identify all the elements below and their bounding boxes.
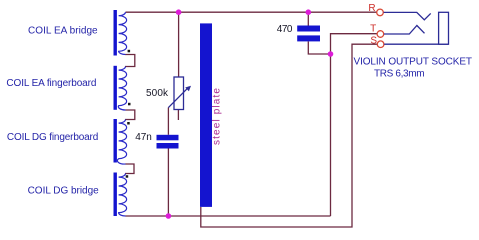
- wire top bus (coil1 top to R terminal): [126, 11, 377, 13]
- svg-text:COIL DG bridge: COIL DG bridge: [28, 186, 100, 197]
- wire node B to capacitor C1 top: [307, 12, 309, 25]
- coil L2 polarity dot: [128, 103, 131, 106]
- coil L4 polarity dot: [126, 175, 129, 178]
- jack sleeve body: [439, 12, 449, 44]
- wire zigzag coil2 bottom to coil3 top: [125, 110, 135, 120]
- svg-text:VIOLIN OUTPUT SOCKET: VIOLIN OUTPUT SOCKET: [354, 56, 473, 67]
- coil L2 core bar: [114, 66, 117, 110]
- node D junction: [166, 213, 172, 219]
- node C junction: [328, 51, 334, 57]
- wire right riser bus1 up to node C: [330, 54, 332, 216]
- wire zigzag coil3 bottom to coil4 top: [125, 164, 134, 174]
- node B junction: [306, 9, 312, 15]
- coil L4 (COIL DG bridge) winding: [119, 174, 127, 217]
- coil L3 polarity dot: [127, 122, 130, 125]
- svg-text:S: S: [370, 35, 377, 46]
- capacitor C1 470 plates: [297, 26, 320, 32]
- potentiometer R1 body: [174, 77, 184, 110]
- coil L1 core bar: [114, 10, 117, 56]
- coil L3 core bar: [114, 119, 117, 163]
- svg-text:COIL EA fingerboard: COIL EA fingerboard: [6, 78, 96, 89]
- wire capacitor C1 bottom to node C: [308, 42, 330, 55]
- jack terminal S circle: [377, 41, 384, 48]
- jack ring contact: [384, 12, 431, 19]
- svg-text:steel plate: steel plate: [211, 88, 222, 145]
- wire S terminal down-around to steel plate: [201, 44, 378, 227]
- wire pot wiper to capacitor C2 top: [167, 108, 169, 135]
- wire node A to potentiometer top: [178, 12, 180, 77]
- svg-text:TRS 6,3mm: TRS 6,3mm: [374, 68, 425, 79]
- coil L1 polarity dot: [128, 50, 131, 53]
- svg-text:T: T: [370, 24, 376, 35]
- wire bottom bus 1 (coil4 bottom to right riser): [126, 215, 331, 217]
- coil L3 (COIL DG fingerboard) winding: [117, 120, 126, 165]
- coil L4 core bar: [114, 173, 117, 217]
- coil L2 (COIL EA fingerboard) winding: [118, 67, 126, 111]
- svg-text:COIL DG fingerboard: COIL DG fingerboard: [7, 132, 98, 143]
- node A junction: [176, 9, 182, 15]
- potentiometer R1 wiper arrow: [168, 87, 189, 108]
- svg-text:470: 470: [277, 24, 293, 35]
- svg-text:R: R: [368, 3, 375, 14]
- capacitor C2 47n plates: [157, 135, 179, 141]
- jack terminal R circle: [377, 9, 384, 16]
- wire capacitor C2 bottom to bottom bus node D: [167, 149, 169, 217]
- steel plate bar: [200, 23, 212, 207]
- jack tip contact: [384, 26, 425, 35]
- wire potentiometer bottom stub: [177, 110, 179, 121]
- svg-text:COIL EA bridge: COIL EA bridge: [28, 26, 98, 37]
- wire node C up and right to T terminal: [331, 34, 378, 54]
- wire zigzag coil1 bottom to coil2 top: [125, 55, 135, 67]
- svg-text:47n: 47n: [135, 132, 152, 143]
- jack sleeve line: [384, 43, 448, 45]
- jack terminal T circle: [377, 31, 384, 38]
- svg-text:500k: 500k: [146, 88, 169, 99]
- coil L1 (COIL EA bridge) winding: [119, 12, 127, 54]
